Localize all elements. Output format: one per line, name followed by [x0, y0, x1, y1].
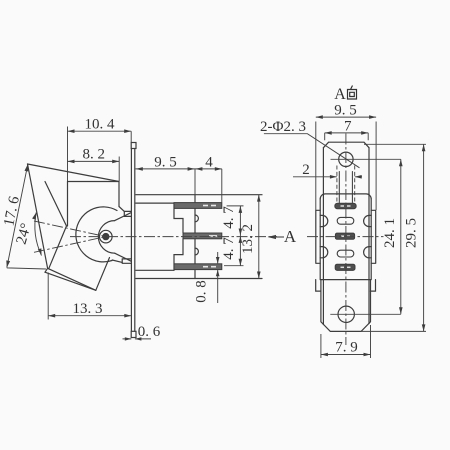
- dimension 7.9 lines: [321, 325, 371, 358]
- dimension 24.1 line: [400, 159, 402, 314]
- latch lug lower-left: [320, 247, 328, 258]
- svg-text:7. 9: 7. 9: [335, 339, 358, 355]
- centerlines of side view: [34, 221, 277, 252]
- bezel right edge: [118, 182, 120, 207]
- svg-text:9. 5: 9. 5: [154, 154, 177, 170]
- slot row 4: [337, 250, 354, 257]
- svg-text:4. 7: 4. 7: [221, 206, 237, 229]
- body middle section top edge: [320, 194, 371, 199]
- rocker actuator right edge: [96, 258, 110, 291]
- latch lug upper-right: [364, 215, 372, 226]
- dimension 2 lines: [293, 176, 362, 178]
- bezel upper step: [124, 211, 131, 216]
- terminal 2 (middle): [183, 233, 222, 239]
- plate left edge: [322, 148, 324, 325]
- arrows 8.2: [68, 160, 75, 164]
- dimension 24deg arc: [35, 213, 42, 256]
- rocker actuator left edge: [28, 164, 48, 268]
- hidden pin lines: [337, 166, 355, 203]
- svg-text:4: 4: [205, 154, 213, 170]
- arrows 13.2: [257, 195, 261, 202]
- hole crosshair top: [331, 158, 401, 160]
- body middle section side walls: [320, 199, 371, 280]
- arrows 24deg: [32, 213, 36, 220]
- arrows 9.5: [136, 167, 143, 171]
- arrows 24.1: [399, 159, 403, 166]
- dimension 7 lines: [325, 133, 369, 140]
- bezel left edge: [67, 182, 69, 227]
- contact rivet lower: [195, 248, 198, 255]
- svg-text:29. 5: 29. 5: [404, 218, 420, 248]
- arrows 0.6: [125, 337, 132, 340]
- dimension 4.7 4.7 lines: [224, 206, 244, 266]
- arrowheads (front view): [316, 115, 426, 356]
- plate right edge: [368, 148, 370, 324]
- bezel upper-right slant to flange: [119, 207, 124, 212]
- dimension 29.5 lines: [361, 144, 426, 331]
- arrows 7: [325, 131, 332, 135]
- svg-text:A: A: [334, 86, 346, 103]
- glyph xiang (direction): [348, 86, 357, 100]
- switch body internal step profile: [174, 203, 183, 270]
- switch body right edge: [194, 195, 196, 279]
- latch lug upper-left: [320, 215, 328, 226]
- dimension 9.5 / 4 lines: [136, 169, 222, 203]
- dimension 13.3 lines: [48, 273, 131, 320]
- arrows 9.5 top: [316, 115, 323, 119]
- svg-text:13. 2: 13. 2: [240, 224, 256, 254]
- svg-text:0. 6: 0. 6: [138, 324, 161, 340]
- svg-text:24. 1: 24. 1: [382, 218, 398, 248]
- svg-text:10. 4: 10. 4: [85, 117, 116, 133]
- rocker axis upper position: [34, 221, 106, 237]
- arrows 17.6: [25, 164, 29, 171]
- hinge boss outer arc: [76, 207, 117, 262]
- svg-text:2: 2: [302, 162, 310, 178]
- arrowheads (side view): [6, 129, 276, 340]
- svg-text:7: 7: [344, 119, 352, 135]
- dimension 0.8 lines: [217, 252, 219, 303]
- svg-text:0. 8: 0. 8: [194, 280, 210, 303]
- dimension texts (front view): [260, 86, 419, 356]
- rocker inner face line upper: [45, 182, 67, 227]
- terminal 3 (bottom): [174, 264, 222, 270]
- side wing left: [316, 210, 320, 263]
- terminal 1 (top): [174, 203, 222, 209]
- svg-text:2-Φ2. 3: 2-Φ2. 3: [260, 119, 306, 135]
- slot row 2: [337, 217, 354, 224]
- dimension 17.6 line: [7, 164, 46, 269]
- slot row 1 (terminal): [335, 203, 356, 209]
- bottom latch stub left: [316, 280, 321, 292]
- bezel top edge: [68, 181, 120, 183]
- pivot outer circle: [100, 230, 113, 243]
- pivot pin: [103, 234, 109, 240]
- hole crosshair bottom: [330, 313, 401, 315]
- slot row 3 (terminal): [335, 233, 354, 239]
- arrows 10.4: [68, 129, 75, 133]
- dimension 8.2 lines: [68, 157, 120, 182]
- leader 2-phi2.3: [264, 134, 360, 168]
- side wing right: [371, 210, 376, 263]
- horizontal centerline A-A: [70, 236, 277, 238]
- mounting hole top: [339, 152, 353, 166]
- top plate outline: [323, 142, 369, 148]
- bottom bracket outline: [321, 280, 371, 332]
- latch lug lower-right: [364, 247, 372, 258]
- switch body bottom wall: [136, 270, 262, 278]
- hinge boss inner top link: [115, 213, 132, 221]
- mounting flange top cap: [131, 143, 136, 149]
- rocker actuator bottom edge outer: [45, 272, 96, 290]
- svg-text:8. 2: 8. 2: [83, 147, 106, 163]
- arrows 2: [330, 175, 337, 179]
- bezel lower-right slant to flange: [112, 260, 122, 262]
- hidden line right: [354, 166, 356, 203]
- section arrow A tail: [274, 236, 284, 238]
- arrows 13.3: [48, 314, 55, 318]
- vertical centerline: [345, 134, 347, 346]
- dimension graphics (side view): [7, 127, 259, 339]
- slot row 5 (terminal): [335, 264, 355, 270]
- dimension texts (side view): [1, 117, 297, 340]
- hinge boss inner arc: [98, 221, 114, 254]
- hidden line left: [336, 166, 338, 203]
- svg-text:A: A: [284, 227, 297, 246]
- centerlines of front view: [307, 134, 384, 346]
- horizontal centerline A-A: [307, 236, 384, 238]
- svg-text:4. 7: 4. 7: [221, 237, 237, 260]
- arrows 4: [195, 167, 202, 171]
- contact rivet upper: [195, 215, 198, 222]
- rocker axis lower position: [34, 237, 106, 253]
- terminal highlight specks: [203, 206, 217, 267]
- hinge boss inner bottom link: [115, 253, 132, 261]
- dimension 9.5 lines: [316, 117, 376, 210]
- mounting flange bottom cap: [131, 331, 136, 337]
- body bottom edge: [321, 279, 371, 281]
- dimension 0.6 lines: [123, 338, 152, 340]
- rocker inner face line lower: [49, 226, 67, 269]
- bottom latch stub right: [370, 280, 375, 292]
- rocker actuator lower-left corner: [45, 268, 48, 272]
- rocker actuator bottom edge inner: [48, 268, 96, 290]
- dimension graphics (front view): [264, 117, 426, 358]
- section arrow A: [268, 235, 277, 239]
- rocker actuator top edge: [28, 164, 120, 182]
- svg-text:13. 3: 13. 3: [73, 301, 103, 317]
- arrows 29.5: [422, 144, 426, 151]
- mounting flange plate: [131, 149, 134, 332]
- bezel lower step: [122, 259, 131, 263]
- actuator pin lines: [339, 172, 352, 203]
- switch body top wall: [136, 195, 262, 203]
- arrows 0.8: [216, 257, 220, 264]
- svg-text:9. 5: 9. 5: [334, 103, 357, 119]
- dimension 13.2 lines: [258, 195, 260, 279]
- mounting hole bottom: [338, 306, 354, 322]
- arrows 7.9: [321, 353, 328, 357]
- arrows 4.7 4.7: [239, 206, 243, 213]
- slot highlight specks: [341, 206, 351, 267]
- dimension 10.4 lines: [68, 127, 132, 182]
